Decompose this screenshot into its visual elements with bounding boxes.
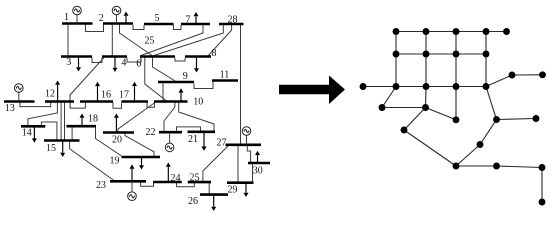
graph node D2 <box>422 104 429 111</box>
wire line 6-7 <box>141 25 203 56</box>
wire line 6-8 <box>175 58 185 62</box>
generator G2 at bus 2 <box>112 6 121 23</box>
graph edge D2-C2 <box>425 87 428 108</box>
svg-text:2: 2 <box>99 13 104 24</box>
graph edge E1-K <box>404 130 456 166</box>
wire line 12-13 <box>20 103 51 107</box>
bus 7 busbar <box>181 23 210 26</box>
graph node M <box>493 163 500 170</box>
wire line 27-28 <box>240 25 242 144</box>
wire line 12-14 <box>28 103 58 126</box>
load arrow bus 15 <box>60 141 65 158</box>
graph edge A3-A4 <box>456 31 486 33</box>
graph edge A1-A2 <box>396 31 426 33</box>
svg-text:22: 22 <box>146 127 156 138</box>
bus 28 busbar <box>219 23 244 26</box>
graph edge A2-B2 <box>425 32 427 55</box>
wire line 16-17 <box>113 103 122 109</box>
graph node B3 <box>453 51 460 58</box>
graph node H <box>509 72 516 79</box>
graph edge B1-B2 <box>396 53 426 55</box>
graph edge A3-B3 <box>455 32 457 55</box>
svg-text:25: 25 <box>190 172 200 183</box>
graph edge B3-B4 <box>456 53 486 55</box>
svg-text:5: 5 <box>155 13 160 24</box>
graph edge G-Q <box>497 119 537 120</box>
svg-text:14: 14 <box>22 128 32 139</box>
load arrow bus 8 <box>194 57 199 73</box>
graph node A1 <box>393 28 400 35</box>
graph node A5 <box>503 28 510 35</box>
bus 14 busbar <box>21 125 45 128</box>
load arrow bus 14 <box>32 126 37 142</box>
graph edge M-N <box>497 166 543 168</box>
bus 8 busbar <box>185 55 211 58</box>
wire line 4-12 <box>70 58 104 101</box>
graph node C3 <box>453 83 460 90</box>
graph node C1 <box>393 83 400 90</box>
graph node C4 <box>483 83 490 90</box>
graph edge B2-B3 <box>426 53 456 55</box>
graph node L <box>360 83 367 90</box>
wire line 14-15 <box>41 122 57 140</box>
svg-text:6: 6 <box>136 58 141 69</box>
wire line 12-16 <box>70 103 85 109</box>
wire line 3-4 <box>92 58 102 63</box>
graph node P <box>539 199 546 206</box>
wire line 23-24 <box>141 182 154 186</box>
bus 27 busbar <box>226 144 262 147</box>
load arrow bus 3 <box>76 57 81 72</box>
graph node A4 <box>483 28 490 35</box>
graph edge D2-F1 <box>426 108 457 120</box>
svg-text:20: 20 <box>112 134 122 145</box>
wire line 1-3 <box>67 25 69 56</box>
svg-text:9: 9 <box>183 71 188 82</box>
wire line 12-15 <box>60 103 62 140</box>
wire line 9-11 <box>194 82 213 89</box>
generator G1 at bus 1 <box>73 6 82 23</box>
wire line 4-6 <box>127 58 141 63</box>
wire line 2-4 <box>111 25 113 56</box>
bus 11 busbar <box>212 79 238 82</box>
bus 18 busbar <box>67 125 97 128</box>
graph edge B2-C2 <box>425 54 427 87</box>
graph edge C1-C2 <box>396 86 426 88</box>
load arrow bus 12 <box>55 81 60 102</box>
svg-text:19: 19 <box>110 155 120 166</box>
wire line 10-22 <box>164 102 175 132</box>
generator G27 at bus 27 <box>242 127 251 145</box>
graph node Q <box>533 115 540 122</box>
graph edge F1-C3 <box>455 87 457 120</box>
load arrow bus 7 <box>194 12 199 24</box>
bus 22 busbar <box>159 131 182 134</box>
wire line 10-20 <box>118 103 155 133</box>
wire line 6-9 <box>153 58 177 82</box>
bus 23 busbar <box>110 180 146 183</box>
graph edge C3-C4 <box>456 86 486 88</box>
graph edge N-P <box>541 168 543 203</box>
svg-text:29: 29 <box>228 185 238 196</box>
bus 6 busbar <box>140 55 175 58</box>
svg-text:18: 18 <box>88 114 98 125</box>
graph edge A4-A5 <box>486 31 507 33</box>
graph node B2 <box>423 51 430 58</box>
svg-text:3: 3 <box>66 57 71 68</box>
graph node J <box>477 141 484 148</box>
bus 9 busbar <box>158 81 194 84</box>
wire line 2-5 <box>133 25 144 30</box>
graph edge C1-D1 <box>382 87 396 108</box>
load arrow bus 29 <box>244 183 249 197</box>
graph node N <box>539 164 546 171</box>
wire line 8-28 <box>208 25 232 57</box>
bus 2 busbar <box>103 22 133 25</box>
graph edge L-C1 <box>363 86 396 88</box>
generator G13 at bus 13 <box>14 84 23 102</box>
svg-text:30: 30 <box>253 166 263 177</box>
graph edge H-I <box>512 74 543 76</box>
load arrow bus 30 <box>255 151 260 163</box>
bus 19 busbar <box>122 156 161 159</box>
bus 15 busbar <box>44 139 80 142</box>
graph edge B3-C3 <box>455 54 457 87</box>
wire line 10-17 <box>147 103 155 108</box>
graph node B1 <box>393 51 400 58</box>
bus 13 busbar <box>4 100 35 103</box>
wire line 27-29 <box>237 146 239 182</box>
wire line 10-21 <box>179 102 214 132</box>
bus 25 busbar <box>188 181 211 184</box>
graph edge B1-C1 <box>395 54 397 87</box>
wire line 21-22 <box>177 127 201 132</box>
bus 17 busbar <box>122 100 149 103</box>
graph node E1 <box>401 127 408 134</box>
graph edge B4-C4 <box>485 54 487 87</box>
graph node F1 <box>453 116 460 123</box>
wire line 29-30 <box>252 164 254 182</box>
svg-text:13: 13 <box>5 103 15 114</box>
load arrow bus 21 <box>202 132 207 151</box>
svg-text:11: 11 <box>220 70 230 81</box>
graph node C2 <box>423 83 430 90</box>
load arrow bus 17 <box>132 82 137 102</box>
wire line 27-30 <box>247 146 250 162</box>
load arrow bus 10 <box>179 88 184 101</box>
bus 1 busbar <box>62 22 93 25</box>
graph edge A4-B4 <box>485 32 487 55</box>
wire line 15-23 <box>70 142 114 181</box>
bus 29 busbar <box>227 181 254 184</box>
bus 24 busbar <box>153 181 182 184</box>
wire line 2-6 <box>120 25 153 56</box>
load arrow bus 4 <box>113 57 118 73</box>
svg-text:4: 4 <box>121 57 126 68</box>
wire line 15-18 <box>71 128 73 140</box>
svg-text:26: 26 <box>188 196 198 207</box>
graph edge A2-A3 <box>426 31 456 33</box>
bus 10 busbar <box>154 100 188 103</box>
load arrow bus 26 <box>211 195 216 211</box>
graph node A2 <box>423 28 430 35</box>
svg-text:1: 1 <box>64 12 69 23</box>
load arrow bus 23 <box>130 165 135 182</box>
bus 5 busbar <box>144 23 174 26</box>
svg-text:27: 27 <box>217 137 227 148</box>
generator G23 at bus 23 <box>128 181 137 200</box>
wire line 18-19 <box>96 128 122 157</box>
svg-text:17: 17 <box>119 89 129 100</box>
svg-text:23: 23 <box>96 180 106 191</box>
graph node K <box>453 163 460 170</box>
wire line 12-15b <box>64 103 66 140</box>
svg-text:10: 10 <box>193 96 203 107</box>
bus 20 busbar <box>103 131 134 134</box>
wire line 6-28 <box>153 25 224 57</box>
wire line 25-26 <box>208 183 210 194</box>
graph node B4 <box>483 51 490 58</box>
graph edge J-K <box>456 145 480 167</box>
svg-text:25: 25 <box>145 35 155 46</box>
graph node G <box>493 116 500 123</box>
wire line 5-7 <box>174 25 182 30</box>
bus 3 busbar <box>61 55 92 58</box>
svg-text:21: 21 <box>188 134 198 145</box>
big transform arrow <box>279 76 345 105</box>
svg-text:7: 7 <box>186 14 191 25</box>
graph edge D1-D2 <box>382 107 426 109</box>
graph edge K-M <box>456 165 497 167</box>
graph node D1 <box>379 104 386 111</box>
load arrow bus 16 <box>95 82 100 102</box>
graph edge A1-B1 <box>395 32 397 55</box>
graph edge D2-E1 <box>404 108 426 131</box>
wire line 25-27 <box>203 146 228 182</box>
bus 26 busbar <box>200 193 228 196</box>
bus 16 busbar <box>80 100 113 103</box>
graph edge C4-H <box>486 75 512 87</box>
load arrow bus 19 <box>139 157 144 170</box>
wire line 24-25 <box>177 183 195 187</box>
graph edge C2-C3 <box>426 86 456 88</box>
wire line 1-2 <box>86 25 104 32</box>
svg-text:28: 28 <box>228 14 238 25</box>
svg-text:8: 8 <box>212 48 217 59</box>
bus 4 busbar <box>102 55 127 58</box>
wire line 9-10 <box>162 84 164 101</box>
svg-text:12: 12 <box>45 88 55 99</box>
load arrow bus 18 <box>80 114 85 127</box>
load arrow bus 2 <box>124 12 129 24</box>
load arrow bus 24 <box>166 163 171 183</box>
bus 12 busbar <box>45 100 74 103</box>
wire line 6-10 <box>145 58 166 101</box>
graph edge C4-G <box>486 87 497 120</box>
graph edge G-J <box>480 120 497 145</box>
svg-text:24: 24 <box>171 173 181 184</box>
wire line 19-20 <box>125 133 154 157</box>
graph node I <box>539 71 546 78</box>
svg-text:16: 16 <box>101 89 111 100</box>
bus 30 busbar <box>248 162 270 165</box>
generator G22 at bus 22 <box>165 133 174 152</box>
svg-text:15: 15 <box>46 143 56 154</box>
graph node A3 <box>453 28 460 35</box>
bus 21 busbar <box>188 131 216 134</box>
load arrow bus 20 <box>114 114 119 133</box>
